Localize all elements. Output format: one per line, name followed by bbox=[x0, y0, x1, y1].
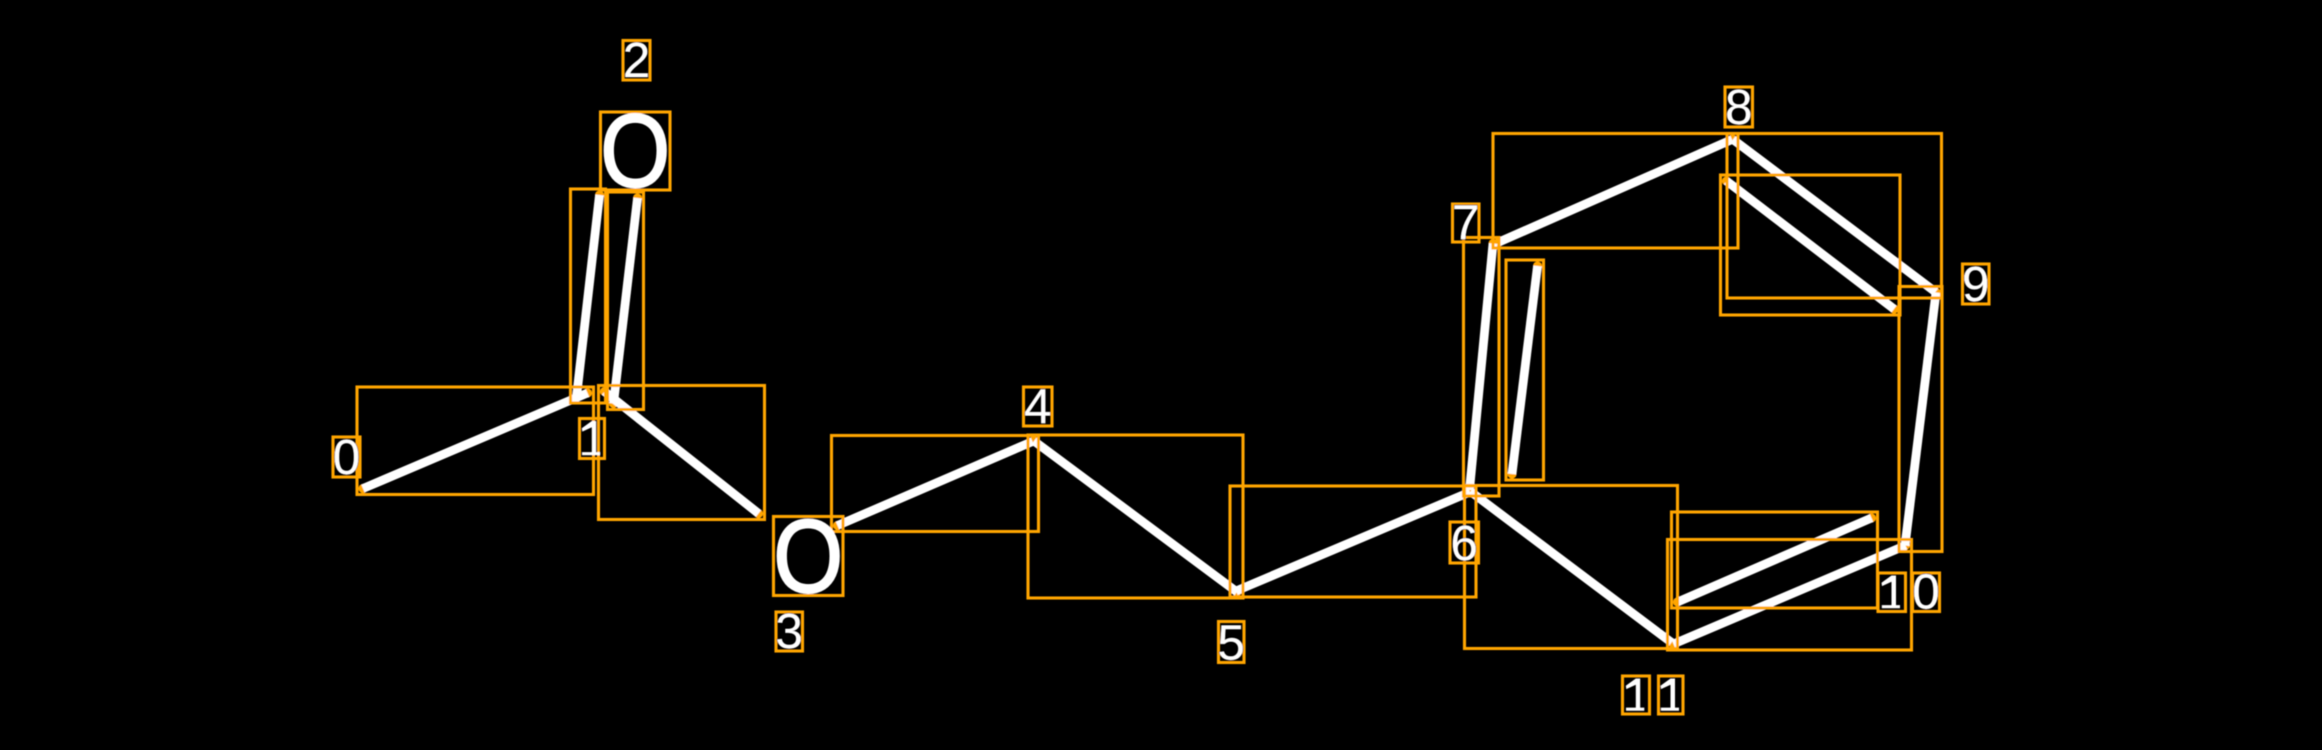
atom index 2 label box bbox=[623, 41, 650, 81]
atom index 11 second 1 label box bbox=[1659, 676, 1684, 714]
bond 11-6 endpoint markers bbox=[1466, 487, 1676, 647]
bond 1-3 bounding box bbox=[599, 386, 765, 520]
bond 1-2 line b bbox=[614, 198, 638, 404]
atom index 10 digit 0 label box bbox=[1913, 573, 1940, 612]
bond 11-6 bounding box bbox=[1465, 486, 1678, 649]
svg-text:6: 6 bbox=[1450, 516, 1478, 571]
bond 11-6 bbox=[1471, 492, 1672, 643]
atom index 0 label box bbox=[333, 437, 360, 477]
bond 10-11 inner line bounding box bbox=[1672, 512, 1878, 608]
bond 8-9 outer line endpoint markers bbox=[1728, 135, 1940, 297]
bond 4-5 bbox=[1034, 441, 1237, 592]
bond 7-8 bounding box bbox=[1493, 134, 1738, 249]
bond 3-4 endpoint markers bbox=[833, 437, 1037, 530]
bond 3-4 bounding box bbox=[832, 436, 1039, 532]
bond 8-9 inner line bbox=[1727, 181, 1895, 309]
atom index 11 second 1 digit 1 bbox=[1661, 679, 1680, 711]
atom index 8 label box bbox=[1725, 87, 1753, 127]
bond 3-4 bbox=[838, 442, 1033, 526]
bond 8-9 outer line bounding box bbox=[1727, 134, 1942, 299]
svg-text:3: 3 bbox=[775, 604, 803, 659]
bond 9-10 bbox=[1905, 293, 1936, 546]
bond 5-6 endpoint markers bbox=[1231, 487, 1474, 595]
atom index 10 digit 1 label box bbox=[1878, 573, 1906, 612]
bond 8-9 inner line bounding box bbox=[1721, 175, 1901, 315]
bond 1-2 line b endpoint markers bbox=[609, 193, 642, 408]
bond 6-7 outer line endpoint markers bbox=[1465, 239, 1498, 495]
atom index 11 first 1 digit 1 bbox=[1626, 679, 1645, 711]
bond 10-11 inner line endpoint markers bbox=[1673, 513, 1876, 606]
svg-text:8: 8 bbox=[1725, 80, 1753, 135]
atom 2 oxygen label box bbox=[601, 112, 671, 190]
atom index 7 label box bbox=[1453, 204, 1480, 242]
bond 4-5 endpoint markers bbox=[1029, 436, 1241, 596]
svg-text:0: 0 bbox=[333, 430, 361, 485]
atom index 4 label box bbox=[1024, 387, 1053, 426]
atom index 1 label box bbox=[580, 419, 605, 459]
bond 8-9 inner line endpoint markers bbox=[1722, 176, 1899, 313]
bond 7-8 bbox=[1499, 140, 1732, 243]
bond 10-11 outer line bbox=[1674, 546, 1906, 645]
svg-text:O: O bbox=[773, 499, 843, 615]
atom index 9 label box bbox=[1963, 264, 1990, 304]
atom index 1 digit 1 bbox=[582, 421, 601, 455]
bond 5-6 bounding box bbox=[1230, 486, 1476, 597]
svg-text:9: 9 bbox=[1962, 257, 1990, 312]
bond 10-11 outer line endpoint markers bbox=[1669, 541, 1910, 649]
bond 1-3 endpoint markers bbox=[600, 387, 763, 518]
bond 5-6 bbox=[1236, 492, 1470, 591]
atom index 3 label box bbox=[776, 612, 803, 651]
bond 6-7 inner line bbox=[1512, 266, 1538, 474]
svg-text:5: 5 bbox=[1217, 616, 1245, 671]
bond 0-1 bounding box bbox=[357, 387, 594, 495]
svg-text:O: O bbox=[600, 94, 670, 210]
atom index 6 label box bbox=[1450, 522, 1479, 563]
bond 0-1 endpoint markers bbox=[358, 388, 592, 493]
svg-text:2: 2 bbox=[623, 33, 651, 88]
bond 8-9 outer line bbox=[1733, 140, 1936, 293]
bond 6-7 outer line bbox=[1470, 244, 1494, 491]
bond 4-5 bounding box bbox=[1028, 435, 1243, 598]
bond 9-10 bounding box bbox=[1899, 287, 1942, 552]
svg-text:0: 0 bbox=[1912, 565, 1940, 620]
svg-text:7: 7 bbox=[1452, 195, 1480, 250]
atom 3 oxygen label box bbox=[774, 517, 844, 596]
bond 6-7 inner line bounding box bbox=[1506, 260, 1544, 480]
bond 10-11 inner line bbox=[1678, 518, 1872, 602]
bond 6-7 inner line endpoint markers bbox=[1507, 261, 1542, 478]
bond 9-10 endpoint markers bbox=[1900, 288, 1940, 550]
bond 1-2 line a bounding box bbox=[571, 189, 606, 403]
atom index 11 first 1 label box bbox=[1623, 676, 1650, 714]
bond 1-3 bbox=[605, 392, 759, 514]
bond 10-11 outer line bounding box bbox=[1668, 540, 1912, 651]
atom index 10 digit 1 digit 1 bbox=[1882, 576, 1901, 609]
bond 1-2 line a bbox=[577, 195, 600, 397]
atom index 5 label box bbox=[1219, 622, 1245, 663]
bond 6-7 outer line bounding box bbox=[1464, 238, 1500, 497]
bond 7-8 endpoint markers bbox=[1494, 135, 1736, 247]
svg-text:4: 4 bbox=[1024, 379, 1052, 434]
bond 1-2 line a endpoint markers bbox=[572, 190, 604, 401]
bond 1-2 line b bounding box bbox=[608, 192, 644, 410]
bond 0-1 bbox=[363, 393, 588, 489]
